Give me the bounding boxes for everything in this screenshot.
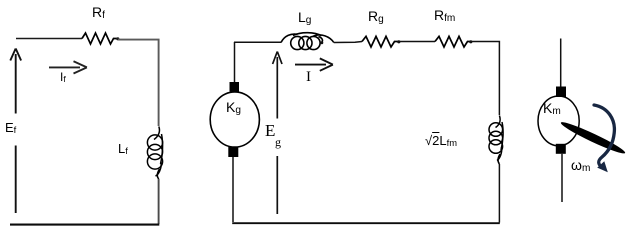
label E_f: [5, 121, 16, 134]
label L_f: [118, 142, 128, 155]
label K_m: [543, 101, 561, 115]
node: white gap for E_f label: [9, 114, 22, 146]
wire: left circuit right vertical lower: [158, 179, 160, 224]
wire: between R_g and R_fm: [399, 41, 435, 43]
arrow E_f (voltage arrow up): [15, 54, 17, 213]
label E_g: [265, 122, 275, 139]
wire: middle circuit top-left vertical: [234, 42, 236, 83]
wire: middle circuit right vertical lower: [498, 164, 500, 223]
inductor sqrt(2)L_fm: [489, 116, 503, 165]
motor shaft blade (filled ellipse): [559, 119, 627, 157]
wire: left circuit top horizontal: [16, 38, 82, 40]
label I: [306, 70, 311, 85]
wire: middle circuit left vertical lower: [232, 157, 234, 222]
wire: middle circuit top horizontal to coil: [234, 41, 281, 43]
node: junction dot right of R_f: [116, 37, 119, 40]
label I_f: [60, 71, 66, 83]
resistor R_f: [82, 33, 117, 44]
label K_g: [226, 100, 241, 114]
wire: between L_g and R_g: [334, 42, 362, 43]
resistor R_fm: [435, 36, 470, 47]
label E_g subscript: [275, 136, 281, 148]
generator terminal square top: [230, 82, 240, 92]
label R_g: [368, 9, 384, 23]
generator terminal square bottom: [228, 147, 238, 158]
label R_fm: [434, 8, 455, 22]
arrow I (current arrow right): [295, 64, 326, 66]
wire: middle circuit top-right and right vertical upper: [471, 42, 499, 116]
wire: left circuit top-right gray segment and right vertical upper: [118, 40, 159, 126]
machine K_g circle: [210, 92, 259, 147]
resistor R_g: [362, 36, 398, 47]
label L_g: [298, 10, 311, 24]
node: junction dot right of R_fm: [469, 40, 472, 43]
arrow I_f (current arrow right): [49, 66, 80, 68]
wire: middle circuit bottom horizontal: [232, 222, 500, 224]
motor terminal square bottom: [556, 144, 566, 154]
node: junction dot right of L_g: [320, 41, 323, 44]
label omega_m: [571, 158, 590, 172]
inductor L_f: [147, 127, 162, 180]
inductor L_g: [281, 33, 334, 50]
arrow E_g (voltage arrow up): [276, 57, 278, 214]
label sqrt2 L_fm: [425, 134, 457, 147]
rotation arrow omega_m: [594, 105, 614, 165]
wire: left circuit bottom horizontal: [10, 224, 159, 226]
node: junction dot right of R_g: [397, 40, 400, 43]
motor terminal square top: [556, 87, 566, 98]
wire: motor top vertical: [560, 39, 562, 88]
machine K_m circle: [538, 96, 579, 146]
node: white gap for E_g label: [270, 119, 286, 157]
wire: motor bottom vertical: [561, 154, 563, 202]
label R_f: [92, 5, 105, 19]
